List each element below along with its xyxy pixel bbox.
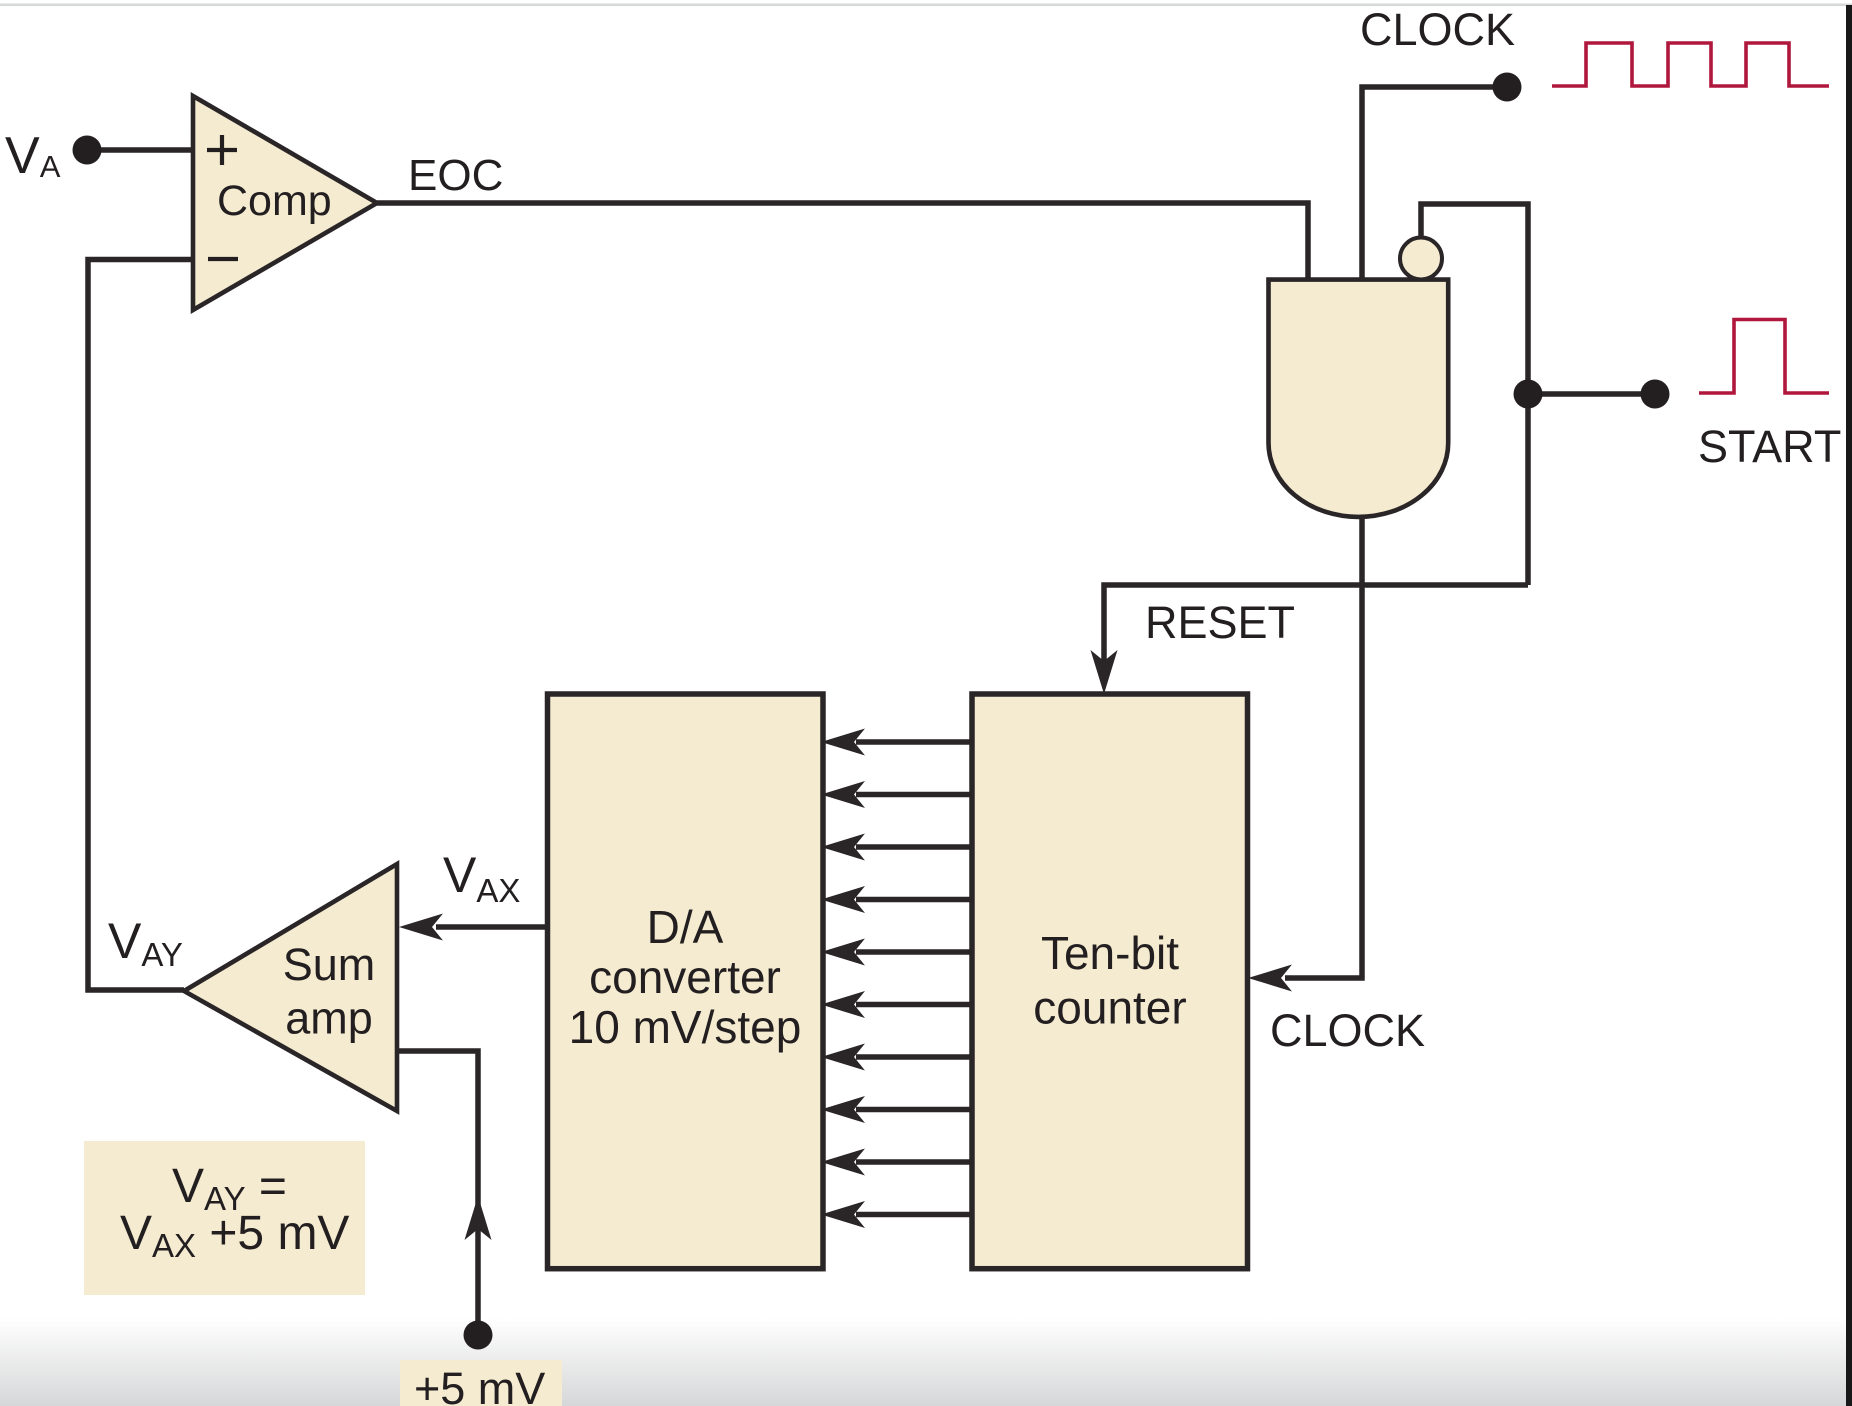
- formula note box: [84, 1141, 365, 1295]
- D/A converter box: [548, 694, 824, 1269]
- wire START line through bubble: [1421, 204, 1528, 585]
- svg-text:EOC: EOC: [408, 151, 503, 200]
- clock waveform red: [1552, 43, 1829, 86]
- bus arrow b9: [821, 729, 972, 756]
- bus arrow b3: [821, 1044, 972, 1071]
- wire START junction to terminal dot: [1528, 391, 1655, 397]
- comparator Comp: [193, 96, 377, 310]
- svg-text:CLOCK: CLOCK: [1270, 1005, 1425, 1056]
- bus arrow b1: [821, 1149, 972, 1176]
- wire EOC comparator output to gate: [377, 203, 1308, 282]
- svg-text:Ten-bit: Ten-bit: [1041, 927, 1179, 979]
- svg-text:CLOCK: CLOCK: [1360, 4, 1515, 55]
- node CLOCK terminal dot: [1493, 73, 1522, 102]
- wire CLOCK terminal to gate input: [1362, 87, 1507, 282]
- svg-text:Sum: Sum: [283, 939, 376, 990]
- bus arrow b5: [821, 939, 972, 966]
- bus arrow b7: [821, 834, 972, 861]
- svg-text:Comp: Comp: [217, 177, 332, 225]
- arrowhead RESET into counter: [1091, 650, 1118, 694]
- bus arrow b2: [821, 1096, 972, 1123]
- node +5mV terminal dot: [464, 1321, 493, 1350]
- wire RESET horizontal: [1104, 585, 1528, 668]
- comparator - input pin marker: [208, 257, 238, 261]
- bus arrow b0: [821, 1201, 972, 1228]
- svg-text:counter: counter: [1033, 982, 1186, 1034]
- bus arrow b8: [821, 781, 972, 808]
- bus arrow b4: [821, 991, 972, 1018]
- node VA terminal dot: [73, 136, 102, 165]
- svg-text:converter: converter: [589, 951, 781, 1003]
- arrowhead CLOCK into counter: [1248, 965, 1292, 992]
- gate input bubble: [1400, 238, 1442, 280]
- wire VAX from DA to sum amp: [436, 924, 547, 930]
- comparator + input pin marker: [207, 135, 237, 165]
- wire +5mV into sum amp lower input: [397, 1051, 478, 1335]
- svg-text:START: START: [1698, 421, 1841, 472]
- svg-text:RESET: RESET: [1145, 597, 1295, 648]
- bus arrow b6: [821, 886, 972, 913]
- wire VA plus input: [87, 147, 193, 153]
- node START junction dot: [1514, 380, 1543, 409]
- +5 mV label box: [400, 1360, 562, 1406]
- node START terminal dot: [1641, 380, 1670, 409]
- start pulse waveform red: [1699, 320, 1829, 394]
- Ten-bit counter box: [972, 694, 1248, 1269]
- svg-text:10 mV/step: 10 mV/step: [569, 1001, 802, 1053]
- svg-text:amp: amp: [285, 993, 373, 1044]
- svg-text:+5 mV: +5 mV: [414, 1363, 545, 1406]
- AND gate U1: [1269, 280, 1449, 517]
- arrowhead +5mV pointing up: [465, 1196, 492, 1240]
- arrowhead VAX into sum amp: [399, 914, 443, 941]
- svg-text:D/A: D/A: [647, 901, 724, 953]
- wire gate output to counter clock: [1285, 515, 1362, 978]
- wire feedback VAY to comparator minus: [88, 260, 193, 991]
- sum amp: [184, 864, 397, 1111]
